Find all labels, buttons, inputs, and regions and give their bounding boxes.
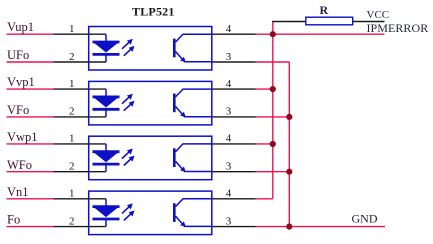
svg-text:Vn1: Vn1 [7, 185, 29, 199]
svg-text:UFo: UFo [7, 48, 29, 62]
svg-text:Vup1: Vup1 [7, 20, 34, 34]
svg-text:Vwp1: Vwp1 [7, 130, 38, 144]
svg-text:TLP521: TLP521 [132, 5, 175, 19]
svg-text:GND: GND [352, 211, 378, 225]
svg-text:R: R [320, 3, 329, 17]
svg-text:Fo: Fo [7, 213, 20, 227]
svg-text:VCC: VCC [367, 9, 390, 21]
svg-text:WFo: WFo [7, 158, 32, 172]
svg-text:IPMERROR: IPMERROR [367, 21, 429, 35]
svg-text:Vvp1: Vvp1 [7, 75, 35, 89]
svg-text:VFo: VFo [7, 103, 29, 117]
